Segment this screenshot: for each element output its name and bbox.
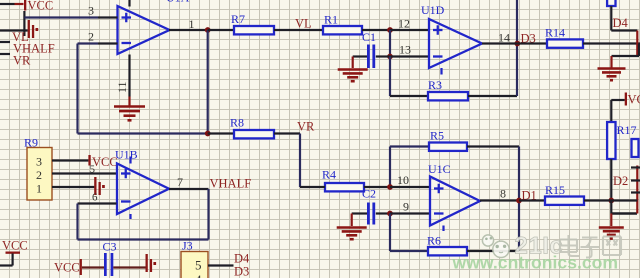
resistor R6 [428,247,467,255]
svg-text:R6: R6 [427,234,441,248]
power port VCC at R9 [88,155,90,166]
battery symbol at C3 [146,254,148,272]
wire to U1C pin 10 [390,186,430,188]
svg-text:R3: R3 [428,78,442,92]
svg-text:5: 5 [90,164,96,176]
wire to R3 [390,95,428,97]
wire junction to U1D pin 12 [390,29,429,31]
svg-text:U1D: U1D [421,3,445,17]
pin 2 U1A [98,42,118,44]
watermark panda logo [482,235,509,258]
ground below U1A [114,105,145,108]
pin 3 U1A [98,16,118,18]
junction node pin9 [387,211,393,217]
resistor R4 [325,183,364,191]
svg-text:VL: VL [295,17,312,31]
wire C2 left to ground [352,212,367,214]
wire VCC stub top-left [0,3,15,5]
svg-text:D4: D4 [613,16,629,30]
svg-text:1: 1 [36,182,42,196]
watermark glyph wang [603,237,621,256]
svg-text:12: 12 [398,17,410,31]
wire stub VR [0,53,10,55]
svg-text:R1: R1 [324,13,338,27]
ground stem right [610,56,612,68]
pin J3-5 wire [208,264,234,266]
svg-text:C3: C3 [103,240,117,254]
wire junction to U1D pin 13 [390,55,429,57]
resistor R8 [234,130,274,138]
wire C2 right to junction [376,212,390,214]
resistor R17 [607,122,615,159]
wire D4 row right [611,29,637,31]
wire R17 down to D2 node [610,159,612,201]
svg-text:11: 11 [115,81,129,93]
svg-text:8: 8 [500,187,506,201]
wire pin10 node up to R5 [389,147,391,188]
wire R16 down [610,6,612,31]
svg-text:D3: D3 [234,265,249,278]
svg-text:2: 2 [36,168,42,182]
pin 14 U1D output [482,42,517,44]
svg-text:R5: R5 [430,129,444,143]
wire C1 to junction [376,55,390,57]
wire junction down to pin13 node [389,30,391,57]
watermark glyph dian [560,235,579,256]
battery symbol at U1B [94,177,96,195]
svg-text:VCC: VCC [28,0,54,13]
svg-text:10: 10 [397,173,409,187]
pin 11 U1A [128,55,130,97]
svg-text:7: 7 [177,175,183,189]
svg-text:2: 2 [88,30,94,44]
junction node pin1 [205,27,211,33]
ground right of R14 [598,67,626,70]
pin stub right edge c [631,191,640,193]
pin 7 U1B output [169,188,209,190]
svg-text:J3: J3 [182,239,193,253]
link at right edge [638,44,640,57]
pin 6 U1B wire [78,202,117,204]
resistor R7 [234,26,274,34]
resistor sliver right edge [632,139,639,157]
battery symbol VL [28,20,30,38]
capacitor C2 [367,203,370,225]
wire VCC down to R17 [610,100,612,122]
U1B feedback loop right [207,189,209,240]
wire R5 row left [390,145,429,147]
pin R9-1 to battery [52,186,94,188]
wire D1 to R15 [519,199,545,201]
wire stub VHALF [0,41,10,43]
wire R5 to feedback column [467,145,519,147]
junction node pin10 [387,184,393,190]
op-amp U1A [118,6,170,54]
junction node D2 [608,198,614,204]
wire junction to R8 [208,132,234,134]
U1B feedback loop left [76,204,78,240]
pin R9-2 to U1B pin 5 [52,172,117,174]
U1B feedback loop bottom [78,238,209,240]
wire R1 to junction [362,29,390,31]
svg-text:VCC: VCC [92,155,118,169]
pin stub right edge a [631,166,640,168]
wire ground row right [612,55,640,57]
svg-text:1: 1 [189,17,195,31]
wire U1C feedback column [518,147,520,252]
pin R9-3 to VCC [52,159,88,161]
wire R8 row [78,132,208,134]
wire R6 row left [390,250,428,252]
svg-text:VCC: VCC [54,261,80,275]
pin 1 U1A output wire [169,29,209,31]
wire junction to R7 [208,29,234,31]
resistor R3 [428,92,468,100]
resistor R15 [545,197,584,205]
op-amp U1D [429,19,482,68]
pin stub U1D bottom [440,68,442,75]
wire R4 wires [300,186,325,188]
ground stem C1 [352,57,354,69]
watermark glyph zi [581,238,600,258]
wire junction down to R8 row [207,30,209,134]
wire C3 to battery [113,266,145,268]
wire pin9 node down to R6 [389,214,391,252]
red link right edge [636,31,638,57]
svg-text:3: 3 [88,4,94,18]
wire pin2 to left column [78,42,99,44]
wire VR corner down to R4 row [299,134,301,188]
connector J3 body [181,252,208,278]
wire R7 to R1 [274,29,323,31]
svg-text:C2: C2 [362,187,376,201]
wire R3 to feedback column [468,95,517,97]
svg-text:U1A: U1A [166,0,190,5]
capacitor C3 [104,253,107,276]
svg-text:R7: R7 [231,12,245,26]
wire vertical from VCC stub [23,11,25,36]
ground below C2 [337,226,367,229]
wire C1 left to ground [353,55,367,57]
svg-text:4: 4 [195,272,202,278]
svg-text:VCC: VCC [628,93,640,107]
ground below C1 [338,68,368,71]
svg-text:R14: R14 [545,26,565,40]
pin stub right edge b [631,179,640,181]
power port VCC top-left [24,0,26,11]
wire feedback column up to top edge [516,0,518,96]
junction node pin12 [387,27,393,33]
power port VCC right [611,99,624,101]
svg-text:3: 3 [36,155,42,169]
ground below D2 node [599,226,624,229]
svg-text:6: 6 [92,192,98,204]
op-amp U1C [430,177,480,226]
wire to U1C pin 9 [390,212,430,214]
wire R8 to VR corner [274,132,300,134]
junction node D1 [516,198,522,204]
svg-text:www.cntronics.com: www.cntronics.com [452,253,619,273]
svg-text:VHALF: VHALF [210,177,252,191]
svg-text:VCC: VCC [2,239,28,253]
svg-text:5: 5 [195,258,202,273]
pin stub U1B bottom [129,214,131,219]
svg-text:R17: R17 [617,123,637,137]
wire R6 to feedback column [467,250,519,252]
wire VCC to C3 [82,266,104,268]
svg-text:D2: D2 [613,174,628,188]
svg-text:R4: R4 [322,168,336,182]
pin stub U1C bottom [442,226,444,232]
junction node pin13 [387,54,393,60]
wire D3 to R14 [517,42,547,44]
resistor R1 [323,26,362,34]
svg-text:C1: C1 [362,30,376,44]
svg-text:14: 14 [498,31,510,45]
wire to U1A pin 3 [24,16,98,18]
pin stub U1B top [129,157,131,164]
red line right edge [636,166,638,214]
wire R15 to D2 node and right edge [584,199,637,201]
svg-text:R8: R8 [230,116,244,130]
svg-text:R15: R15 [545,183,565,197]
junction node D3 [514,41,520,47]
wire stub VL [0,29,28,31]
svg-text:13: 13 [399,43,411,57]
pin 8 U1C output [480,199,519,201]
svg-text:VR: VR [297,120,315,134]
resistor R16 (clipped top) [607,0,615,6]
op-amp U1B [117,164,169,215]
ground stem right-bottom [610,214,612,227]
pin 4 stub U1A top [128,0,130,7]
svg-text:U1B: U1B [115,148,138,162]
junction node R8 row [205,131,211,137]
svg-text:U1C: U1C [428,162,451,176]
ground drop bar right-bottom [610,201,612,214]
svg-text:9: 9 [403,200,409,214]
capacitor C1 [367,45,370,69]
svg-text:D4: D4 [234,252,250,266]
resistor R5 [429,143,467,151]
wire left column down [76,44,78,134]
svg-text:VR: VR [13,54,31,68]
ground stem C2 [351,214,353,227]
resistor network R9 body [27,148,52,201]
power wire red segment [15,3,24,5]
wire R14 to right edge [583,42,640,44]
resistor R14 [547,39,583,47]
wire pin13 node down to R3 [389,57,391,97]
